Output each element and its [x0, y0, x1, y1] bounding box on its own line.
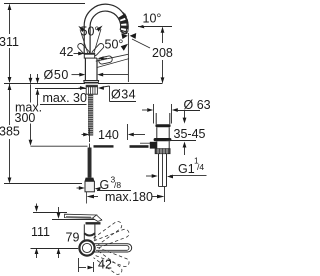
svg-text:385: 385	[0, 125, 20, 139]
svg-text:Ø50: Ø50	[44, 68, 69, 82]
svg-text:311: 311	[0, 35, 19, 49]
svg-text:G1: G1	[178, 162, 195, 176]
svg-text:42: 42	[60, 45, 74, 59]
svg-text:208: 208	[152, 46, 173, 60]
svg-text:140: 140	[98, 128, 119, 142]
svg-text:300: 300	[15, 111, 36, 125]
svg-text:max. 30: max. 30	[43, 91, 88, 105]
svg-text:50°: 50°	[105, 38, 124, 52]
svg-text:79: 79	[66, 231, 80, 245]
svg-text:/8: /8	[114, 180, 121, 190]
svg-text:/4: /4	[197, 162, 204, 172]
svg-text:42: 42	[98, 258, 112, 272]
svg-text:Ø 63: Ø 63	[184, 98, 211, 112]
svg-text:50°: 50°	[81, 25, 100, 39]
svg-text:max.180: max.180	[105, 190, 153, 204]
svg-text:35-45: 35-45	[174, 127, 206, 141]
svg-text:10°: 10°	[143, 12, 162, 26]
svg-text:111: 111	[31, 225, 50, 239]
svg-text:Ø34: Ø34	[111, 88, 136, 102]
